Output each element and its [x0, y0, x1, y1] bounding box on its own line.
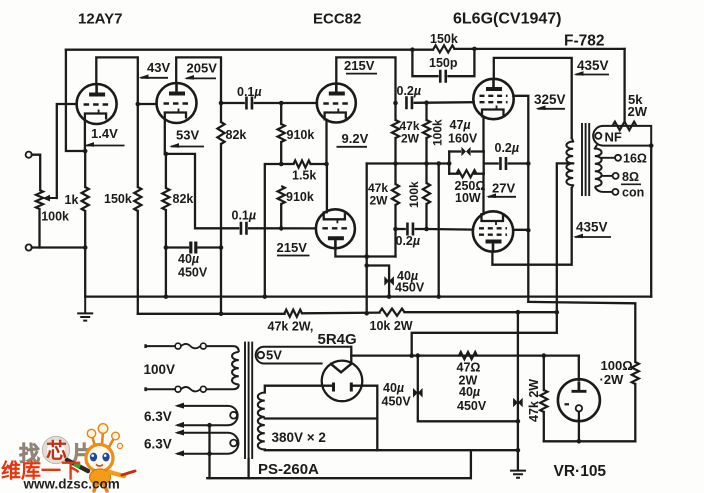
node heater common 1 — [207, 423, 212, 428]
svg-text:16Ω: 16Ω — [623, 152, 647, 166]
tube V4 6L6G lower — [473, 211, 513, 251]
wire cathode down to 1k — [84, 151, 86, 187]
svg-text:·2W: ·2W — [600, 372, 625, 387]
wire 0.1u-1 right lead — [255, 102, 317, 104]
arrow 6.3V-2 bottom — [175, 450, 185, 456]
wire V4 cathode up — [482, 174, 484, 214]
wire 100k-1 leads — [425, 103, 427, 120]
svg-text:100V: 100V — [144, 362, 176, 377]
node gnd divider — [263, 294, 268, 299]
ground symbol main — [77, 297, 93, 321]
winding 6.3V-1 bump — [230, 412, 237, 419]
svg-text:0.1µ: 0.1µ — [232, 209, 257, 223]
wire tap 16ohm — [602, 157, 615, 159]
node V1b grid junction — [136, 102, 141, 107]
svg-text:910k: 910k — [287, 128, 315, 142]
wire V1a plate to V1b grid — [138, 103, 157, 105]
svg-text:1.5k: 1.5k — [292, 169, 316, 183]
node bus 82k-2 — [219, 312, 224, 317]
wire 100V top — [206, 346, 239, 352]
arrow 435V top — [576, 74, 610, 76]
wire HV top end — [265, 386, 334, 393]
wire V2a plate loop — [336, 57, 395, 103]
wire tap con — [595, 187, 612, 192]
tube V2a ECC82 upper — [317, 84, 356, 123]
svg-text:10W: 10W — [455, 191, 481, 205]
resistor R-1.5k — [294, 160, 311, 167]
wire pot bottom — [38, 209, 40, 248]
svg-text:12AY7: 12AY7 — [78, 11, 123, 28]
node bias feed — [447, 161, 452, 166]
arrow 325V — [538, 108, 566, 110]
svg-text:27V: 27V — [492, 181, 515, 196]
capacitor C-40u-3 — [413, 388, 418, 398]
watermark dzsc logo — [1, 424, 135, 492]
capacitor C-0.2u-3 — [500, 157, 506, 170]
terminal con — [612, 189, 618, 195]
wire V3 cathode — [482, 117, 484, 152]
wire core ground — [247, 459, 249, 478]
wire 0.2u-3 right — [509, 162, 529, 164]
svg-text:0.2µ: 0.2µ — [396, 234, 421, 248]
capacitor C-47u-160V — [461, 147, 466, 156]
node 0.2u-2 left — [393, 227, 398, 232]
svg-text:43V: 43V — [147, 60, 170, 75]
wire 150p branch box — [412, 50, 437, 76]
wire V1b plate loop — [176, 57, 221, 122]
wire VR 47k branch — [543, 356, 545, 390]
node heater common 2 — [207, 451, 212, 456]
winding 6.3V-1 — [177, 406, 238, 425]
svg-text:5V: 5V — [266, 348, 282, 363]
svg-text:con: con — [622, 186, 644, 200]
svg-text:1k: 1k — [65, 193, 79, 207]
wire 1k bottom — [84, 211, 86, 297]
resistor R-47k-2W bus — [285, 310, 303, 317]
svg-text:380V × 2: 380V × 2 — [272, 430, 326, 445]
wire NF rail right segment — [455, 48, 625, 50]
wire filter cap string — [517, 312, 519, 470]
capacitor C-0.2u-1 — [406, 96, 412, 109]
svg-text:1.4V: 1.4V — [91, 126, 118, 141]
node V1a cathode junction — [83, 149, 88, 154]
tube V1a 12AY7-a — [77, 84, 117, 124]
wire HV bottom end — [265, 448, 518, 451]
wire tap 8ohm — [602, 175, 613, 177]
resistor R-47k2W-1 — [392, 120, 399, 138]
tube V6 VR-105 — [558, 379, 600, 421]
wire 40u-1 right lead — [199, 246, 221, 248]
wire VR plate feed — [578, 356, 580, 380]
node mid-rail 100k — [424, 161, 429, 166]
node screen line tap — [526, 161, 531, 166]
wire ground bus — [85, 295, 651, 297]
svg-text:435V: 435V — [576, 220, 608, 235]
wire 5V capsule — [256, 347, 352, 364]
terminal input top — [26, 152, 32, 158]
wire V2a cathode — [325, 120, 327, 164]
wire cathode to 82k-1 — [165, 154, 167, 188]
wire rectifier output — [351, 354, 579, 356]
wire V1a plate loop — [96, 57, 138, 187]
svg-text:450V: 450V — [395, 281, 425, 295]
winding F782 primary — [566, 142, 573, 186]
svg-text:47k 2W,: 47k 2W, — [268, 320, 314, 334]
tube V5 5R4G — [322, 361, 363, 402]
svg-text:0.2µ: 0.2µ — [495, 141, 520, 155]
node VR bottom — [577, 439, 582, 444]
svg-text:435V: 435V — [577, 58, 609, 73]
winding F782 secondary — [595, 149, 602, 187]
capacitor C-0.1u-2 — [241, 222, 247, 235]
potentiometer VR-100k — [36, 190, 43, 209]
resistor R-47k-2W shunt — [540, 390, 547, 412]
wire 40u-2 branch — [367, 266, 389, 297]
wire primary top lead — [572, 138, 574, 142]
winding HV secondary — [258, 393, 265, 450]
wire screen line to VR — [528, 302, 635, 362]
wire VR bottom rail — [544, 440, 636, 442]
node bus feed — [555, 310, 560, 315]
node mid-rail drop — [436, 161, 441, 166]
arrow 435V bottom — [575, 236, 611, 238]
wire 5V right drop — [350, 347, 352, 361]
terminal 16ohm — [615, 155, 621, 161]
svg-text:450V: 450V — [382, 395, 412, 409]
node common cathode — [324, 162, 329, 167]
node 40u-2 branch — [364, 263, 369, 268]
resistor R-47ohm-2W — [459, 352, 477, 359]
node gnd midrail — [436, 294, 441, 299]
wire primary bottom lead — [572, 185, 574, 188]
wire 150p box right — [449, 49, 475, 76]
terminal NF tap — [595, 133, 601, 139]
resistor R-150k plate load — [134, 187, 141, 211]
wire 910k-1 leads — [280, 103, 282, 124]
node HV return — [516, 448, 521, 453]
arrow 205V — [186, 77, 216, 79]
svg-text:150k: 150k — [430, 32, 458, 46]
wire 910k-2 bottom lead — [280, 204, 282, 228]
wiper arrow of 100k pot — [46, 197, 57, 199]
node 40u-1 right — [219, 245, 224, 250]
capacitor C-150p — [440, 70, 446, 83]
svg-text:215V: 215V — [344, 58, 375, 73]
wire HV plate2 wrap — [354, 386, 378, 451]
wire V1a cathode — [84, 120, 86, 151]
wire grid2 wire — [427, 228, 473, 231]
wire HV mid tap — [265, 417, 378, 419]
capacitor C-40u-4 — [513, 398, 518, 408]
svg-text:100k: 100k — [407, 181, 421, 208]
svg-text:82k: 82k — [226, 128, 247, 142]
svg-text:450V: 450V — [457, 399, 487, 413]
svg-text:ECC82: ECC82 — [313, 11, 361, 28]
node V4 screen junction — [526, 228, 531, 233]
svg-text:2W: 2W — [628, 104, 648, 119]
svg-text:150p: 150p — [429, 56, 458, 70]
node 910k-2 bottom — [279, 226, 284, 231]
arrow 43V — [141, 77, 169, 79]
svg-text:6L6G(CV1947): 6L6G(CV1947) — [453, 11, 562, 28]
svg-text:2W: 2W — [370, 194, 389, 208]
arrow 1.4V — [86, 145, 125, 147]
tube V1b 12AY7-b — [157, 83, 197, 123]
winding 5V bump — [258, 352, 265, 359]
svg-text:0.1µ: 0.1µ — [237, 85, 262, 99]
wire V1a grid — [57, 104, 77, 198]
node VR box left top — [542, 353, 547, 358]
wire 0.2u-2 leads — [396, 228, 405, 230]
wire V4 screen — [513, 229, 528, 231]
node CT tap — [409, 353, 414, 358]
svg-text:0.2µ: 0.2µ — [397, 84, 422, 98]
node 0.1u-1 tap — [219, 101, 224, 106]
wire V4 plate — [492, 188, 571, 265]
node gnd 82k — [164, 294, 169, 299]
wire chassis rail — [207, 450, 471, 478]
wire 100ohm bottom — [634, 384, 636, 441]
wire B-feed horizontal — [367, 162, 450, 164]
arrow 6.3V-1 top — [175, 403, 185, 409]
node plate-wire left — [364, 254, 369, 259]
arrow 53V — [171, 146, 204, 148]
svg-text:10k 2W: 10k 2W — [370, 319, 413, 333]
capacitor C-0.2u-2 — [407, 223, 413, 236]
winding 100V primary — [232, 352, 239, 384]
wire B+ bus mid — [302, 311, 380, 314]
wire CT jog — [412, 333, 557, 356]
svg-text:47Ω: 47Ω — [457, 361, 481, 375]
wire input bottom rail — [32, 246, 85, 248]
wire cathode follower branch — [166, 154, 238, 228]
resistor R-150k — [434, 45, 455, 52]
svg-text:215V: 215V — [277, 240, 308, 255]
node rail-150p left — [410, 47, 415, 52]
node mid-rail 47k — [393, 161, 398, 166]
wire 47k-1 leads — [394, 103, 396, 120]
resistor R-100ohm-2W — [632, 362, 639, 384]
node 910k-1 top — [279, 101, 284, 106]
svg-text:450V: 450V — [178, 266, 208, 280]
svg-text:53V: 53V — [176, 128, 199, 143]
wire 40u-3 string — [418, 356, 518, 422]
wire NF feedback rail top — [66, 49, 433, 51]
svg-text:9.2V: 9.2V — [342, 131, 369, 146]
resistor R-910k-2 — [278, 186, 285, 204]
fuse 100V bottom — [200, 386, 206, 392]
terminal 8ohm — [613, 173, 619, 179]
svg-text:325V: 325V — [534, 92, 566, 107]
resistor R-10k-2W — [380, 309, 405, 316]
core PS260A — [245, 342, 252, 459]
core F782 — [582, 123, 589, 196]
wire 0.1u-2 right lead — [249, 227, 316, 229]
wire heater common — [208, 425, 210, 478]
wire 82k-2 down to bus — [220, 144, 222, 314]
wire 47k-2 leads — [394, 164, 396, 185]
svg-text:8Ω: 8Ω — [622, 170, 639, 184]
wire bias to 0.2u-3 — [484, 162, 498, 164]
svg-text:6.3V: 6.3V — [144, 437, 172, 452]
node 40u-4 bottom — [516, 419, 521, 424]
svg-text:100k: 100k — [41, 210, 69, 224]
resistor R-100k-2 — [423, 183, 430, 204]
ground symbol PS — [510, 471, 526, 478]
winding 6.3V-2 — [177, 433, 238, 454]
svg-text:6.3V: 6.3V — [144, 409, 172, 424]
node splitter top-left — [393, 101, 398, 106]
terminal input bottom — [26, 244, 32, 250]
wire 40u-1 left lead — [166, 246, 188, 248]
wire V3 plate loop — [494, 58, 572, 138]
wire 82k-1 bottom to ground bus — [165, 210, 167, 297]
svg-text:160V: 160V — [448, 132, 478, 146]
svg-text:VR·105: VR·105 — [554, 463, 607, 480]
resistor R-82k-2 plate — [217, 122, 224, 144]
svg-text:47µ: 47µ — [450, 118, 471, 132]
arrow 6.3V-2 top — [175, 430, 185, 436]
wire divider left branch — [265, 164, 281, 297]
node NF capsule corner — [649, 143, 654, 148]
wire mid-rail ground drop — [438, 164, 440, 297]
wire primary CT — [557, 163, 573, 332]
wire B-feed drop — [366, 164, 368, 314]
node input rail junction — [83, 245, 88, 250]
node V1b cathode junction — [164, 152, 169, 157]
node B-feed bus — [364, 311, 369, 316]
wire 100k-2 leads — [425, 164, 427, 184]
wire 150k bottom to B+ bus — [137, 211, 139, 314]
node grid2 junction — [424, 227, 429, 232]
wire bias box outline — [449, 150, 460, 152]
wire B+ bus left — [138, 313, 285, 315]
svg-text:5R4G: 5R4G — [318, 331, 357, 348]
arrow 6.3V-1 bottom — [175, 422, 185, 428]
winding 6.3V-2 bump — [230, 440, 237, 447]
wire 1.5k right lead — [311, 163, 327, 165]
svg-text:100k: 100k — [431, 119, 445, 146]
wire 0.1u-1 left lead — [221, 102, 244, 104]
wire V2b plate — [335, 248, 395, 257]
svg-text:NF: NF — [605, 130, 622, 145]
wire B+ bus right — [405, 311, 557, 313]
wire VR cathode down — [578, 419, 580, 441]
wire 1.5k left lead — [281, 163, 293, 165]
svg-text:205V: 205V — [187, 61, 218, 76]
wire input top to pot — [32, 155, 40, 190]
tube V2b ECC82 lower — [316, 209, 355, 248]
svg-text:www.dzsc.com: www.dzsc.com — [23, 477, 120, 492]
svg-text:910k: 910k — [286, 190, 314, 204]
wire NF capsule — [593, 126, 651, 146]
node grid1 junction — [424, 100, 429, 105]
svg-text:PS-260A: PS-260A — [258, 461, 319, 478]
resistor R-82k-1 cathode — [162, 188, 169, 210]
fuse 100V top — [200, 343, 206, 349]
resistor R-910k-1 — [278, 124, 285, 142]
wire 100V end ticks — [144, 344, 147, 391]
wire V3 screen — [514, 96, 529, 302]
svg-text:40µ: 40µ — [383, 381, 404, 395]
resistor R-100k-1 — [423, 120, 430, 138]
capacitor C-40u-450V-2 — [384, 276, 389, 286]
wire secondary top to NF loop — [595, 146, 597, 149]
wire NF ground riser — [650, 146, 652, 297]
svg-text:100Ω: 100Ω — [601, 358, 633, 373]
node 40u-3 top — [416, 353, 421, 358]
wire 0.2u-1 right to grid — [415, 101, 474, 104]
tube V3 6L6G upper — [473, 79, 513, 119]
wire 100V bottom — [206, 384, 239, 389]
node 40u-1 left — [164, 245, 169, 250]
node bus filter — [516, 310, 521, 315]
svg-text:82k: 82k — [173, 192, 194, 206]
capacitor C-40u-450V-1 — [191, 242, 196, 254]
node 40u-2 ground — [387, 294, 392, 299]
capacitor C-0.1u-1 — [246, 97, 252, 110]
svg-text:40µ: 40µ — [459, 385, 480, 399]
svg-text:40µ: 40µ — [178, 252, 199, 266]
node B-feed plate wire — [364, 254, 369, 259]
resistor R-1k — [82, 187, 89, 211]
resistor R-250ohm — [457, 170, 477, 177]
wire 47k shunt bottom — [543, 412, 545, 441]
node rail-150p right — [472, 47, 477, 52]
wire V1b cathode — [164, 120, 166, 154]
node divider mid — [279, 162, 284, 167]
svg-text:47k 2W: 47k 2W — [527, 379, 541, 422]
wire V2b cathode up — [326, 164, 328, 212]
resistor R-5k-2W — [623, 49, 625, 122]
resistor R-47k2W-2 — [392, 184, 399, 205]
svg-text:F-782: F-782 — [564, 33, 605, 50]
svg-text:150k: 150k — [104, 192, 132, 206]
svg-text:2W: 2W — [401, 132, 420, 146]
wire NF rail left drop — [66, 50, 85, 151]
